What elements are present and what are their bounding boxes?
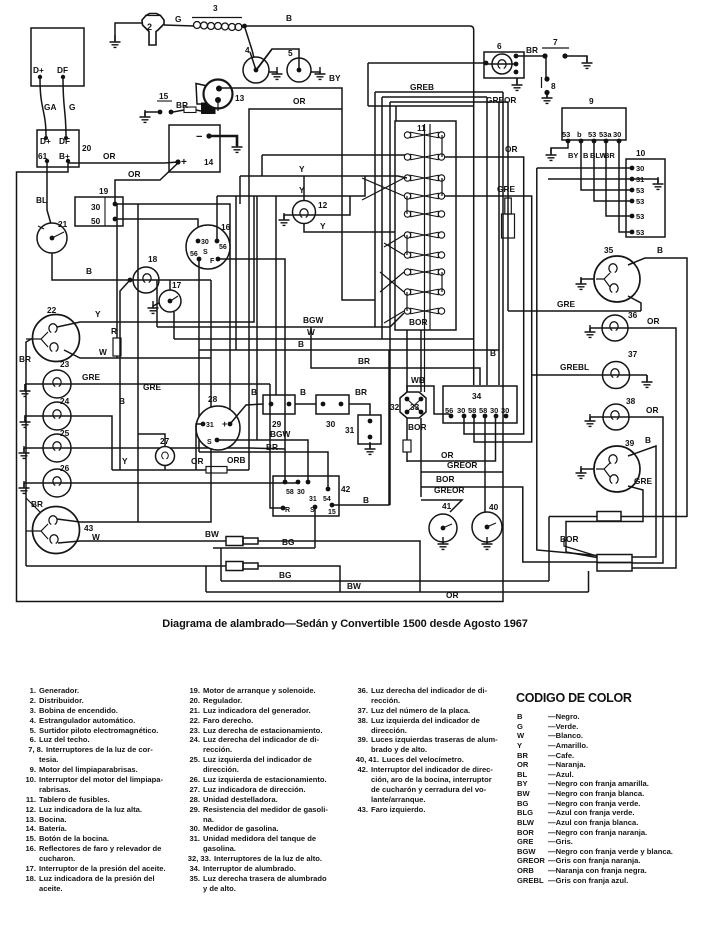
lamp 21 [37, 223, 67, 253]
svg-text:BY: BY [329, 73, 341, 83]
svg-text:GRE: GRE [634, 476, 652, 486]
generator box 1 [31, 28, 84, 86]
svg-text:BOR: BOR [408, 422, 426, 432]
svg-text:30: 30 [501, 406, 509, 415]
resistor R on W line [116, 204, 118, 358]
svg-text:53: 53 [588, 130, 596, 139]
wire GRE fuse row4 [445, 196, 532, 442]
svg-text:DF: DF [57, 65, 68, 75]
svg-text:37: 37 [628, 349, 638, 359]
svg-text:GREOR: GREOR [434, 485, 464, 495]
wire BY branch down [342, 109, 375, 300]
svg-text:53: 53 [636, 186, 644, 195]
svg-text:25: 25 [60, 428, 70, 438]
headlamp right 22 [33, 315, 80, 362]
svg-text:WB: WB [411, 375, 425, 385]
wire GA generator to regulator [40, 79, 46, 136]
turn lamp right 36 [602, 315, 628, 341]
wire Y mesh horizontals [262, 155, 405, 176]
wire Y 12 bottom [304, 224, 395, 232]
svg-text:BY: BY [568, 151, 578, 160]
ground of 12 [284, 215, 315, 219]
stop light switches 32 33 [400, 392, 426, 418]
svg-text:4: 4 [245, 45, 250, 55]
svg-text:+: + [222, 419, 227, 429]
svg-text:BOR: BOR [409, 317, 427, 327]
svg-text:BR: BR [266, 442, 278, 452]
wire OR down column [249, 109, 342, 470]
svg-text:30: 30 [613, 130, 621, 139]
courtesy switch 7 [542, 53, 547, 58]
svg-text:W: W [92, 532, 100, 542]
wire 12 right to Y [315, 196, 350, 215]
horn 13 [196, 84, 212, 105]
dome light 6 [484, 52, 524, 78]
svg-text:OR: OR [293, 96, 305, 106]
courtesy switch 8 [545, 56, 547, 77]
svg-text:S: S [207, 439, 212, 446]
wire BGW 28/S to 42 [217, 440, 308, 482]
svg-text:3: 3 [213, 3, 218, 13]
svg-text:29: 29 [272, 419, 282, 429]
svg-text:6: 6 [497, 41, 502, 51]
svg-text:BR: BR [176, 100, 188, 110]
turn indicator lamp 27 [138, 434, 165, 447]
fuse box 11 [395, 121, 456, 330]
wire 13 to dome light 6 [219, 88, 342, 109]
svg-text:53: 53 [562, 130, 570, 139]
svg-text:R: R [111, 326, 117, 336]
wire GREOR to speedometer lamps [484, 416, 486, 512]
speedometer lamp 40 [472, 512, 502, 542]
svg-text:G: G [69, 102, 75, 112]
wire GRE connector vertical [507, 102, 509, 311]
park lamp 26 [43, 469, 71, 497]
svg-text:19: 19 [99, 186, 109, 196]
svg-text:OR: OR [646, 405, 658, 415]
svg-text:BR: BR [355, 387, 367, 397]
wire B coil to right column [244, 26, 474, 385]
svg-text:53a: 53a [599, 130, 612, 139]
wire 16/56b down to BR line [198, 261, 200, 452]
svg-text:30: 30 [297, 489, 305, 496]
wire BG long [221, 580, 549, 582]
svg-text:GA: GA [44, 102, 56, 112]
node junction at 18 [128, 278, 133, 283]
wire to ground from 2 [115, 23, 142, 41]
svg-text:15: 15 [159, 91, 169, 101]
wire GRE 35 [628, 296, 641, 311]
wire BG from 42 [213, 547, 315, 549]
fuel gauge resistor 29 [263, 395, 295, 414]
wire BG 42/S down [314, 509, 316, 548]
ground of 35 [581, 279, 594, 283]
svg-text:12: 12 [318, 200, 328, 210]
plate lamp 37 [603, 362, 630, 389]
svg-text:13: 13 [235, 93, 245, 103]
svg-text:41: 41 [442, 501, 452, 511]
light switch 34 [443, 386, 517, 423]
wire 19/50 to relay 16 [115, 219, 198, 241]
svg-text:BG: BG [282, 537, 294, 547]
svg-text:15: 15 [328, 509, 336, 516]
battery 14 [169, 125, 220, 172]
svg-text:21: 21 [58, 219, 68, 229]
headlight switch 9 [562, 108, 626, 140]
wire BGW main [157, 280, 404, 327]
svg-text:Y: Y [320, 221, 326, 231]
svg-text:OR: OR [647, 316, 659, 326]
wire nested GREB loops [368, 63, 503, 106]
svg-text:B: B [657, 245, 663, 255]
svg-text:30: 30 [91, 202, 101, 212]
svg-text:OR: OR [128, 169, 140, 179]
svg-text:GREB: GREB [410, 82, 434, 92]
wire 179 feed [548, 178, 630, 180]
turn lamp left 38 [603, 404, 629, 430]
svg-text:R: R [285, 507, 290, 514]
svg-text:S: S [203, 249, 208, 256]
svg-text:42: 42 [341, 484, 351, 494]
svg-text:30: 30 [636, 164, 644, 173]
svg-text:ORB: ORB [227, 455, 245, 465]
distributor 2 [142, 14, 164, 46]
svg-text:Y: Y [95, 309, 101, 319]
wire OR 36 [590, 328, 676, 568]
svg-text:31: 31 [309, 496, 317, 503]
turn lamp 25 [43, 434, 71, 462]
fuel gauge 30 [316, 395, 349, 414]
svg-text:54: 54 [323, 496, 331, 503]
svg-text:BG: BG [279, 570, 291, 580]
lamp 17 [169, 280, 171, 290]
wire G to coil [164, 25, 194, 26]
wire GRE to 42/R [270, 384, 283, 508]
svg-text:53: 53 [636, 228, 644, 237]
fuse box 10 [626, 159, 665, 237]
svg-text:53: 53 [636, 197, 644, 206]
pilot jet 5 [287, 58, 311, 82]
wire 43 high beam [57, 280, 211, 522]
svg-text:B: B [86, 266, 92, 276]
svg-text:36: 36 [628, 310, 638, 320]
svg-text:BGW: BGW [270, 429, 290, 439]
wire BW from cluster [588, 571, 590, 592]
tail lamp left 39 [594, 446, 640, 492]
svg-text:BGW: BGW [303, 315, 323, 325]
svg-text:58: 58 [468, 406, 476, 415]
wire BR to 42 [199, 452, 328, 489]
svg-text:40: 40 [489, 502, 499, 512]
svg-text:GRE: GRE [82, 372, 100, 382]
wire 28/+ to 29 [230, 404, 263, 424]
svg-text:56: 56 [219, 244, 227, 251]
flasher unit 28 [196, 406, 240, 450]
svg-text:GREOR: GREOR [447, 460, 477, 470]
svg-text:56: 56 [190, 251, 198, 258]
svg-text:B: B [363, 495, 369, 505]
wire BR left of 22 [26, 338, 33, 566]
wire 30 feed [537, 167, 630, 169]
wire to 18 branch down [120, 280, 130, 470]
wires 9 to fuse box 10 [581, 141, 630, 190]
svg-text:GRE: GRE [143, 382, 161, 392]
fuse holder box 19 [75, 197, 123, 226]
wire fuse chain links [407, 135, 442, 311]
svg-text:BR: BR [526, 45, 538, 55]
wire 4 to 5 [258, 49, 299, 68]
coil 3 [192, 17, 242, 19]
svg-text:10: 10 [636, 148, 646, 158]
svg-text:G: G [175, 14, 181, 24]
ground of 17 [153, 303, 159, 307]
svg-text:39: 39 [625, 438, 635, 448]
wire B 39 [628, 446, 656, 557]
svg-text:GREBL: GREBL [560, 362, 589, 372]
svg-text:58: 58 [479, 406, 487, 415]
svg-text:OR: OR [191, 456, 203, 466]
svg-text:26: 26 [60, 463, 70, 473]
wire coil to choke 4 [245, 28, 256, 66]
ground of 9 [551, 141, 568, 154]
svg-text:23: 23 [60, 359, 70, 369]
wire BR connector lower [226, 562, 243, 571]
wire W 22 low beam [64, 350, 211, 358]
svg-text:B: B [645, 435, 651, 445]
svg-text:14: 14 [204, 157, 214, 167]
svg-text:28: 28 [208, 394, 218, 404]
svg-text:24: 24 [60, 396, 70, 406]
ground of 4 [269, 72, 277, 73]
svg-text:16: 16 [221, 222, 231, 232]
svg-text:BR: BR [19, 354, 31, 364]
svg-text:B: B [490, 348, 496, 358]
park lamp 23 [43, 370, 71, 398]
svg-text:7: 7 [553, 37, 558, 47]
wire G generator to regulator [63, 79, 66, 136]
svg-text:GRE: GRE [557, 299, 575, 309]
svg-text:53: 53 [636, 212, 644, 221]
wire Y column to 43 [137, 204, 139, 522]
wire BR main [311, 327, 480, 385]
svg-text:OR: OR [103, 151, 115, 161]
wire 19/30 to flasher column [115, 204, 230, 424]
choke 4 [243, 57, 269, 83]
wire 25 to switch 42 [24, 448, 285, 449]
svg-text:33: 33 [410, 402, 420, 412]
wire BOR [421, 487, 597, 562]
svg-text:OR: OR [441, 450, 453, 460]
ground of 6 [516, 78, 518, 84]
svg-text:B: B [300, 387, 306, 397]
svg-text:20: 20 [82, 143, 92, 153]
wire column x276 [275, 196, 277, 395]
regulator box 20 [37, 130, 79, 167]
wire W main [174, 312, 474, 339]
wire GRE 23 [25, 383, 270, 385]
ground of 5 [311, 72, 320, 73]
wire OR 34/30 [407, 416, 496, 461]
svg-text:22: 22 [47, 305, 57, 315]
svg-text:Y: Y [122, 456, 128, 466]
wire OR fuse row2 [445, 157, 524, 434]
svg-text:50: 50 [91, 216, 101, 226]
wire BW long [206, 566, 589, 592]
svg-text:Y: Y [299, 185, 305, 195]
fuse right top [597, 512, 621, 522]
svg-text:BL: BL [36, 195, 47, 205]
wire fuse 32/33 down [406, 418, 408, 462]
wire 12 feed [303, 176, 305, 201]
svg-text:30: 30 [201, 239, 209, 246]
wire Y 22 high beam [57, 196, 254, 327]
svg-text:B: B [298, 339, 304, 349]
speedometer lamp 41 [429, 514, 457, 542]
svg-text:+: + [181, 157, 187, 168]
lamp 18 [133, 267, 159, 293]
schematic SVG placeholder [0, 0, 711, 618]
wire BR 6 to switch 7 [516, 55, 545, 57]
wire column x257 [256, 196, 258, 440]
tail lamp right 35 [594, 256, 640, 302]
wire B 42/15 [332, 350, 389, 505]
wire crossing fuse rows left [362, 178, 404, 200]
svg-text:31: 31 [345, 425, 355, 435]
svg-text:35: 35 [604, 245, 614, 255]
wire W 43 connector [226, 537, 243, 546]
wire GRE 39 [566, 486, 643, 558]
wire OR from terminal 30 to battery [115, 163, 178, 202]
svg-text:BW: BW [205, 529, 219, 539]
headlight relay 16 [186, 225, 230, 269]
svg-text:GREOR: GREOR [486, 95, 516, 105]
wire fusebox bottom to stop switches [407, 330, 421, 392]
svg-text:8: 8 [551, 81, 556, 91]
wire B main [199, 349, 499, 351]
svg-text:18: 18 [148, 254, 158, 264]
svg-text:38: 38 [626, 396, 636, 406]
wire frame left border [17, 92, 504, 602]
svg-text:BW: BW [347, 581, 361, 591]
wire 16/56 up to Y line [216, 196, 218, 241]
svg-text:F: F [210, 258, 215, 265]
headlamp left 43 [33, 507, 80, 554]
svg-text:−: − [196, 131, 202, 143]
wire 16/F to B line [220, 259, 285, 482]
wire OR ORB with resistor [112, 469, 249, 471]
wire B down right of fusebox [486, 97, 488, 385]
svg-text:5: 5 [288, 48, 293, 58]
svg-text:17: 17 [172, 280, 182, 290]
wire 13 to 6 horizontal [368, 62, 486, 64]
wire 26 to switch 42 [24, 482, 298, 484]
svg-text:31: 31 [206, 422, 214, 429]
wire BL regulator 61 to lamp 21 [47, 163, 51, 224]
svg-text:B: B [119, 396, 125, 406]
svg-text:b: b [577, 130, 582, 139]
wire 29 to 30 [295, 403, 316, 405]
wire B 35 [628, 258, 687, 517]
wire 31 to ground [632, 179, 658, 183]
wire 24 to OR/ORB [25, 416, 112, 470]
wire GREOR [420, 418, 422, 497]
svg-text:58: 58 [286, 489, 294, 496]
svg-text:Y: Y [299, 164, 305, 174]
svg-text:BR: BR [358, 356, 370, 366]
tank sender 31 [358, 415, 381, 444]
svg-text:27: 27 [160, 436, 170, 446]
wire WB 32/33 to 34 [407, 386, 451, 416]
svg-text:B: B [286, 13, 292, 23]
svg-text:B: B [251, 387, 257, 397]
wire OR 38 [590, 417, 663, 563]
svg-text:D+: D+ [33, 65, 44, 75]
svg-text:B: B [583, 151, 589, 160]
svg-text:GRE: GRE [497, 184, 515, 194]
wire B lamp21 to lamp 18 [52, 253, 211, 280]
svg-text:W: W [99, 347, 107, 357]
svg-text:30: 30 [326, 419, 336, 429]
wire 28/31 stub [196, 424, 203, 470]
svg-text:BOR: BOR [560, 534, 578, 544]
turn lamp 24 [43, 402, 71, 430]
svg-text:9: 9 [589, 96, 594, 106]
svg-text:30: 30 [490, 406, 498, 415]
wire column x236 [235, 196, 237, 350]
wire BR 30 to 31 [349, 404, 370, 415]
wire through fuse box [425, 124, 431, 392]
connector block right bottom [597, 555, 632, 563]
svg-text:OR: OR [505, 144, 517, 154]
svg-text:32: 32 [390, 402, 400, 412]
svg-text:34: 34 [472, 391, 482, 401]
svg-text:2: 2 [147, 22, 152, 32]
wire GREBL 37 [532, 374, 647, 376]
turn switch 42 [273, 476, 339, 516]
svg-text:BOR: BOR [436, 474, 454, 484]
wire W 43 low beam [58, 541, 226, 543]
wire OR regulator B+ to battery [68, 162, 178, 163]
